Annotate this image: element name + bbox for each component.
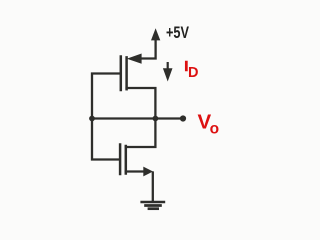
wire Q1 drain-to-rail vertical (rail down to Q2 drain corner) [126, 119, 155, 148]
wire Q1 bottom terminal down to output rail [127, 88, 156, 119]
svg-text:D: D [188, 65, 198, 81]
wire source corner down to ground [152, 173, 154, 202]
current ID arrow (shaft + down arrowhead) [167, 62, 169, 71]
Q1 source arrowhead (points left into channel) [127, 54, 142, 64]
node junction dot right [153, 116, 159, 122]
transistor Q1 gate bar [120, 57, 123, 91]
transistor Q1 channel bar [125, 57, 128, 89]
power +5V arrowhead [151, 28, 160, 40]
ground symbol [140, 202, 165, 209]
svg-text:o: o [210, 120, 219, 137]
Q2 source arrowhead (points right toward ground corner) [143, 167, 153, 177]
svg-text:+5V: +5V [166, 24, 189, 42]
transistor Q2 channel bar [125, 146, 128, 174]
wire Q2 source lead [126, 170, 145, 172]
wire VDD supply lead (vertical into top transistor drain corner) [141, 39, 156, 59]
wire output rail (node Vo horizontal) [92, 117, 183, 119]
node junction dot left [89, 116, 95, 122]
transistor Q2 gate bar [119, 145, 122, 175]
node Vo terminal dot [180, 115, 186, 121]
wire left gate column: top gate lead, left vertical, bottom gate lead [92, 74, 120, 160]
